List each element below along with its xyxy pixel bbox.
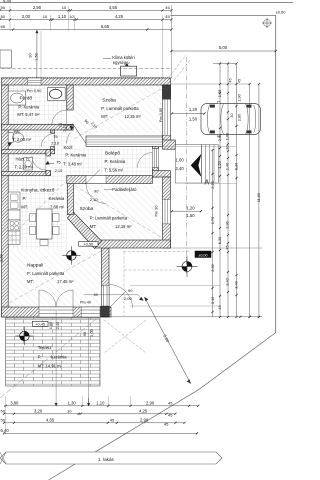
door arc terrace left (39, 290, 56, 307)
dim 5,00 top right line (172, 50, 276, 52)
svg-text:50: 50 (1, 408, 6, 413)
svg-text:2,90: 2,90 (33, 5, 42, 10)
svg-text:P: Laminált parketta: P: Laminált parketta (90, 215, 128, 220)
svg-text:1,70: 1,70 (210, 216, 215, 224)
entrance porch slab (175, 145, 201, 183)
svg-text:P: Laminált parketta: P: Laminált parketta (27, 271, 65, 276)
szoba2 door opening (86, 176, 106, 184)
roof hip dashed top right (169, 55, 186, 77)
window ext up arrow (35, 30, 38, 33)
wall hazt right (46, 150, 51, 157)
dim line 1,20 1,50 szoba2 (172, 210, 201, 212)
kitchen stove (8, 220, 20, 231)
floor belepo kozl tiles (51, 130, 75, 176)
svg-text:6,40: 6,40 (1, 428, 10, 433)
svg-text:10: 10 (67, 408, 72, 413)
wall furdo bottom (2, 124, 74, 130)
svg-text:4,65: 4,65 (46, 417, 55, 422)
section line A dashdot (185, 57, 187, 273)
wall szoba2 left (67, 177, 73, 215)
wall entrance inset lower (152, 168, 158, 178)
chair right 1 (53, 214, 59, 222)
wall entrance inset (152, 144, 158, 149)
eave dash vertical (123, 252, 125, 316)
svg-text:Pm 0,90: Pm 0,90 (159, 108, 163, 122)
svg-text:P: Kerámia: P: Kerámia (18, 105, 39, 110)
svg-text:75: 75 (53, 134, 58, 139)
svg-text:Nappali: Nappali (27, 263, 43, 269)
svg-text:Szoba: Szoba (102, 97, 116, 103)
floor nappali (8, 250, 101, 307)
right chains connector 306 (130, 305, 220, 307)
right chains header line (213, 63, 237, 65)
svg-text:17,45 m²: 17,45 m² (57, 279, 74, 284)
svg-text:6,30: 6,30 (217, 236, 222, 244)
right chains bottom line (111, 316, 262, 318)
svg-text:2,10: 2,10 (62, 124, 66, 131)
svg-text:1,50: 1,50 (34, 53, 38, 60)
floor konyha tiles (8, 176, 67, 251)
svg-text:Szoba: Szoba (80, 206, 94, 212)
chair bottom (40, 240, 48, 246)
padlasfeljaro leader (104, 189, 112, 191)
wall nappali right (102, 248, 110, 317)
svg-text:75: 75 (56, 159, 61, 164)
roof dash konyha (10, 182, 65, 238)
svg-text:1,20: 1,20 (217, 160, 222, 168)
floor furdo tiles (8, 85, 67, 124)
right chains rotated texts (210, 78, 261, 309)
svg-text:3,40: 3,40 (233, 280, 238, 288)
svg-text:6,65: 6,65 (101, 24, 110, 29)
dim diagonal 5,00 (144, 297, 191, 384)
svg-text:7,68 m²: 7,68 m² (50, 205, 65, 210)
svg-text:2,10: 2,10 (55, 168, 64, 173)
wall face dotted line (2, 76, 172, 78)
svg-text:1,30: 1,30 (68, 400, 77, 405)
svg-text:11,60: 11,60 (256, 192, 261, 202)
wc dark mark (8, 141, 12, 146)
svg-text:1,00: 1,00 (176, 158, 185, 163)
right chains header stubs (219, 64, 221, 85)
svg-text:+0,50: +0,50 (83, 241, 94, 246)
wall exterior top (2, 78, 171, 85)
svg-text:2,40: 2,40 (176, 166, 185, 171)
dim chain top row3 line (0, 29, 172, 31)
right chains connector 146 (153, 146, 236, 148)
svg-text:3,20: 3,20 (34, 408, 43, 413)
svg-text:45: 45 (224, 245, 229, 249)
roof dash nappali (9, 251, 101, 303)
svg-text:50: 50 (1, 14, 6, 19)
svg-text:2,00: 2,00 (124, 296, 133, 301)
dim bottom rowD line (4, 432, 197, 434)
right chains connector 183 (185, 182, 236, 184)
svg-text:MT: 14,91 m²: MT: 14,91 m² (38, 364, 63, 369)
svg-text:2,90: 2,90 (146, 400, 155, 405)
survey point dashes (176, 266, 199, 268)
svg-text:MT:: MT: (101, 114, 108, 119)
svg-text:45: 45 (168, 413, 173, 418)
wall entrance top stub (163, 140, 176, 149)
level box +0,50 (79, 242, 98, 247)
roof dash szoba1 (74, 89, 161, 139)
svg-text:50: 50 (1, 417, 6, 422)
eave dash horizontal2 (124, 269, 184, 271)
svg-text:90: 90 (28, 53, 32, 57)
door arc hazt (32, 156, 46, 170)
svg-text:45: 45 (236, 79, 241, 83)
terrace diagonal roof line (0, 319, 96, 398)
dining table (37, 209, 53, 239)
svg-text:2,25: 2,25 (210, 181, 215, 189)
site boundary upper line (171, 14, 276, 16)
svg-text:1,50: 1,50 (189, 117, 198, 122)
wall furdo right column (67, 85, 73, 110)
wc toilet (8, 133, 13, 143)
door leader line (84, 294, 138, 296)
svg-text:45: 45 (165, 14, 170, 19)
eave dashed line above top wall (2, 67, 172, 69)
svg-text:2,00: 2,00 (89, 328, 94, 336)
svg-text:1,10: 1,10 (96, 400, 105, 405)
nappali right door opening (102, 285, 110, 306)
svg-text:12,25 m²: 12,25 m² (124, 114, 141, 119)
svg-text:3,40: 3,40 (224, 277, 229, 285)
hazt leader arrow (50, 163, 55, 165)
svg-text:4,25: 4,25 (115, 14, 124, 19)
dim line 1,20 1,50 (172, 113, 205, 115)
roof hip dash bottom 1 (104, 320, 146, 353)
svg-text:+0,45: +0,45 (35, 321, 45, 326)
svg-text:T: 3,48 m²: T: 3,48 m² (63, 162, 82, 167)
svg-text:10: 10 (62, 5, 67, 10)
side door opening nappali bottom (81, 307, 100, 317)
svg-text:Házt. h:: Házt. h: (16, 157, 30, 162)
svg-text:50: 50 (1, 5, 6, 10)
svg-text:1,10: 1,10 (58, 14, 67, 19)
svg-text:2,80: 2,80 (236, 113, 241, 121)
svg-text:P: Kerámia: P: Kerámia (105, 159, 126, 164)
floor wc tiles (8, 130, 50, 150)
wall partition szoba1 striped (86, 136, 163, 146)
svg-text:10: 10 (43, 14, 48, 19)
washbasin furdo (8, 91, 26, 105)
wall hazt bottom (2, 171, 51, 175)
svg-text:1,00: 1,00 (224, 132, 229, 140)
svg-text:Pm 90: Pm 90 (155, 206, 159, 217)
wall belepo bottom (67, 176, 153, 184)
svg-text:45: 45 (164, 422, 169, 427)
survey point symbol (177, 257, 197, 277)
svg-text:45: 45 (217, 305, 222, 309)
wall szoba2 bottom (95, 240, 171, 248)
svg-text:45: 45 (110, 417, 115, 422)
roof dash szoba2 (75, 186, 161, 237)
meter box top left (0, 50, 11, 68)
dim text row2 (1, 14, 171, 19)
wall wc right (51, 130, 55, 133)
section arrow A (191, 154, 202, 177)
svg-text:40: 40 (94, 293, 98, 297)
svg-text:MT:: MT: (90, 224, 97, 229)
site boundary right vertical (275, 15, 277, 332)
svg-text:2,50: 2,50 (217, 133, 222, 141)
svg-text:65: 65 (1, 24, 6, 29)
svg-text:2,60: 2,60 (0, 254, 4, 261)
dim extension lines top (10, 5, 172, 78)
svg-text:1. lakás: 1. lakás (98, 457, 115, 462)
terrace door opening (39, 307, 73, 317)
level symbol terasz (15, 327, 33, 345)
svg-text:Terasz: Terasz (38, 345, 53, 351)
svg-text:2,30: 2,30 (210, 263, 215, 271)
svg-text:4,25: 4,25 (139, 408, 148, 413)
wall hazt right lower (46, 171, 51, 176)
reference bar 1.lakas (0, 452, 222, 464)
svg-text:Belépő: Belépő (105, 151, 120, 157)
svg-text:4,55: 4,55 (109, 5, 118, 10)
svg-text:45: 45 (227, 78, 232, 82)
kitchen cabinet grid (8, 231, 20, 245)
dim chain top row1 line (0, 9, 172, 11)
roof hip dash bottom 2 (104, 320, 146, 353)
kitchen counter sink (8, 192, 20, 210)
svg-text:2,10: 2,10 (51, 141, 60, 146)
entrance door opening (152, 149, 158, 168)
svg-text:1,20: 1,20 (186, 206, 195, 211)
svg-text:T: 2,00 m²: T: 2,00 m² (13, 137, 32, 142)
site boundary diagonal (49, 333, 276, 480)
dim bottom rowC texts (1, 417, 170, 426)
window opening top wall (28, 78, 41, 85)
wall furdo right stub (67, 125, 73, 130)
dim bottom ext lines (6, 396, 131, 434)
svg-text:3,10: 3,10 (210, 296, 215, 304)
wall exterior left (2, 85, 9, 317)
wall exterior right lower (163, 177, 171, 248)
entrance steps (201, 145, 218, 183)
dim bottom down arrows (55, 311, 57, 405)
klima leader arrow (103, 59, 130, 67)
door arc szoba2 (86, 184, 106, 204)
hazt washing machine (24, 158, 33, 171)
terrace ext line door right (88, 317, 90, 403)
svg-text:Fürdő: Fürdő (20, 96, 33, 102)
level box +-0,00 dark (195, 251, 211, 258)
door arc terrace right (56, 290, 73, 307)
wall entrance bottom stub (152, 171, 170, 177)
benchmark marker top right (262, 18, 272, 28)
kitchen counter mid (8, 210, 20, 220)
svg-text:10: 10 (69, 14, 74, 19)
svg-text:Padlásfeljáró: Padlásfeljáró (112, 187, 137, 192)
dim ticks top rows (0, 9, 173, 30)
dim text row3 (1, 24, 110, 29)
svg-text:1,75: 1,75 (217, 90, 222, 98)
chair right 2 (53, 227, 59, 235)
svg-text:P: Kerámia: P: Kerámia (65, 153, 86, 158)
svg-text:1,20: 1,20 (189, 107, 198, 112)
svg-text:Kerámia: Kerámia (49, 196, 65, 201)
dim text row1 (1, 5, 171, 10)
level symbol nappali (62, 246, 80, 264)
svg-text:Kerámia: Kerámia (51, 355, 67, 360)
washbasin counter top right (48, 88, 66, 101)
svg-text:T: 5,56 m²: T: 5,56 m² (105, 168, 124, 173)
svg-text:3,80: 3,80 (10, 400, 19, 405)
label klima kulteri egysege (112, 55, 135, 65)
svg-text:6,40: 6,40 (3, 0, 12, 3)
svg-text:45: 45 (168, 400, 173, 405)
window opening szoba2 right wall (163, 199, 171, 224)
car mirrors (218, 101, 221, 104)
wall wc bottom (2, 150, 55, 154)
floor szoba top (73, 85, 162, 133)
car wheels (210, 105, 215, 108)
dim chain top row2 line (0, 19, 172, 21)
svg-text:1,90: 1,90 (236, 93, 241, 101)
door arc nappali right (109, 285, 133, 309)
floor terasz bricks (6, 318, 100, 386)
svg-text:P: Laminált parketta: P: Laminált parketta (101, 106, 139, 111)
svg-text:1,80: 1,80 (48, 321, 53, 329)
svg-text:2,10: 2,10 (90, 197, 99, 202)
klima outdoor unit (121, 66, 137, 76)
chair left 1 (30, 214, 36, 222)
svg-text:Pm 40: Pm 40 (80, 301, 91, 305)
dim bottom rowC line (4, 422, 185, 424)
pier nappali right solid (101, 306, 110, 316)
svg-text:±0,00: ±0,00 (199, 253, 208, 257)
right vertical dim chains (211, 83, 260, 318)
svg-text:2,90: 2,90 (224, 220, 229, 228)
svg-text:5,00: 5,00 (219, 45, 228, 50)
svg-text:P:: P: (38, 355, 42, 360)
svg-text:1,40: 1,40 (224, 162, 229, 170)
svg-text:90: 90 (128, 288, 133, 293)
dim bottom rowB line (4, 413, 175, 415)
svg-text:Konyha, étkező: Konyha, étkező (21, 187, 54, 193)
svg-text:Wc: Wc (14, 129, 21, 134)
floor szoba bottom (73, 185, 162, 240)
svg-text:Pm 0,90: Pm 0,90 (27, 88, 43, 93)
car body (201, 104, 260, 135)
svg-text:T: 2,39 m²: T: 2,39 m² (15, 164, 34, 169)
right chains connector 285 (130, 284, 220, 286)
svg-text:A: A (205, 180, 210, 187)
dim bottom rowA texts (10, 400, 173, 405)
dim bottom rowB texts (1, 408, 174, 417)
dim bottom rowA line (4, 405, 198, 407)
door arc wc (41, 134, 55, 148)
dim bottom ticks (3, 405, 199, 435)
door arc furdo (52, 110, 67, 125)
svg-text:±0.00: ±0.00 (276, 10, 287, 15)
window opening right wall (163, 99, 171, 135)
svg-text:2,00: 2,00 (22, 14, 31, 19)
right chains connector 248 (171, 247, 262, 249)
door arc szoba1 (73, 124, 87, 144)
svg-text:Közl:: Közl: (64, 145, 74, 150)
svg-text:MT:: MT: (27, 279, 34, 284)
site boundary top line (0, 2, 293, 4)
svg-text:2,90: 2,90 (140, 417, 149, 422)
wall nappali bottom (2, 307, 111, 317)
svg-text:12,18 m²: 12,18 m² (115, 224, 132, 229)
svg-text:P:: P: (23, 196, 27, 201)
svg-text:MT:: MT: (21, 205, 28, 210)
svg-text:MT: 5,47 m²: MT: 5,47 m² (17, 112, 40, 117)
chair left 2 (30, 227, 36, 235)
svg-text:90: 90 (94, 189, 99, 194)
svg-text:Klíma kültéri: Klíma kültéri (112, 55, 135, 60)
svg-text:8,20: 8,20 (233, 162, 238, 170)
svg-text:45: 45 (165, 5, 170, 10)
eave dash bottom (123, 251, 190, 253)
door arc entrance (137, 153, 152, 168)
right chains top connector (171, 83, 250, 85)
level box +0,45 (32, 321, 48, 326)
pier top right solid (163, 85, 171, 99)
svg-text:1,50: 1,50 (186, 213, 195, 218)
wall exterior right upper (163, 85, 171, 147)
wall wc right lower (51, 147, 55, 150)
wall szoba2 chamfer (67, 212, 101, 249)
floor hazt tiles (8, 154, 46, 172)
car inner lines (207, 105, 210, 134)
